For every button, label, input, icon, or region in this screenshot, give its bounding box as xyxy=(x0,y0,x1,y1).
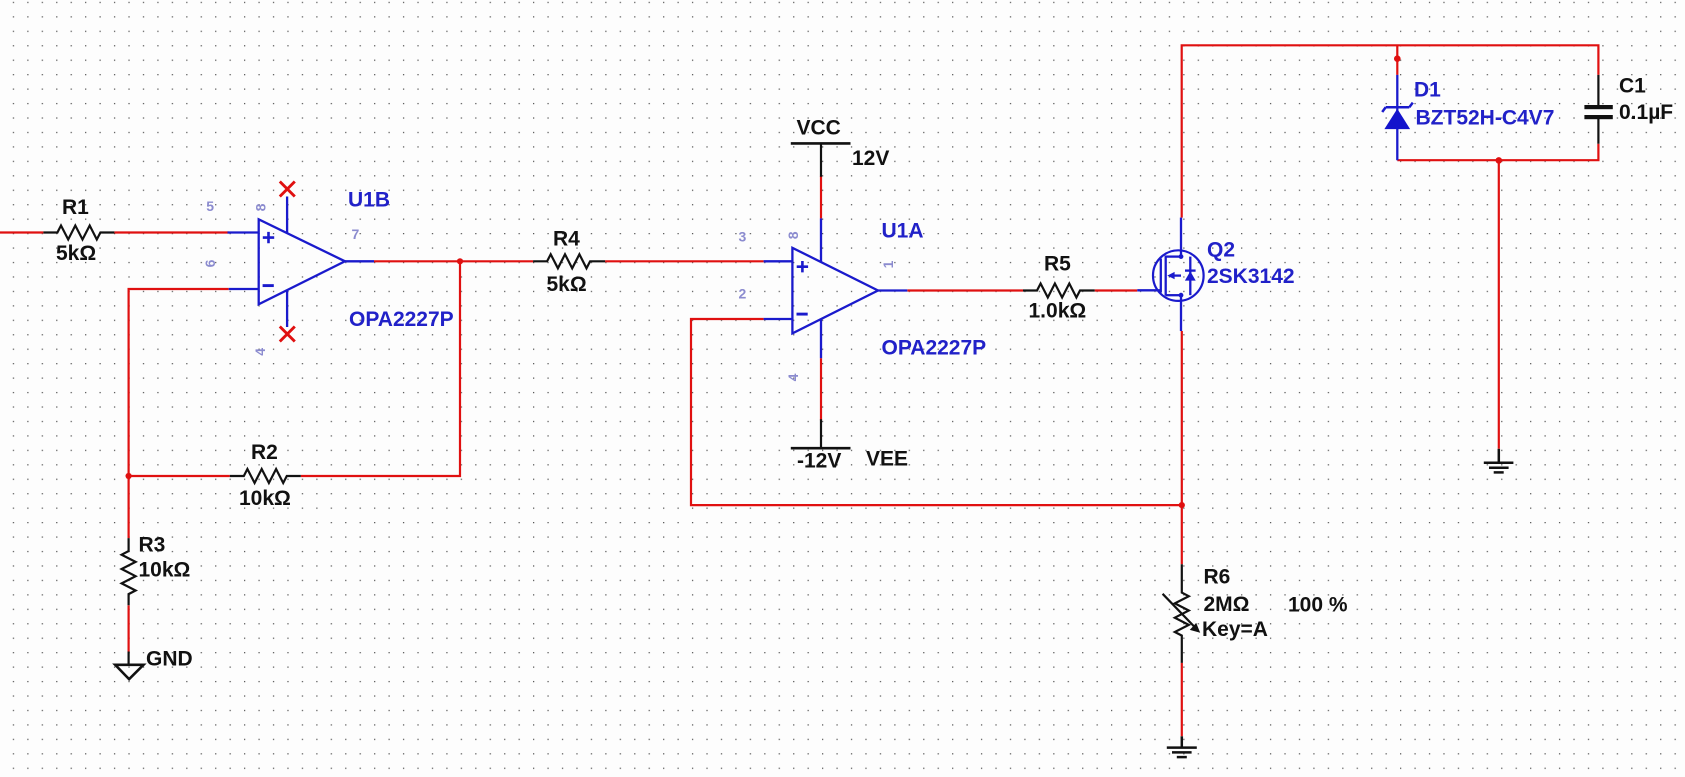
svg-text:R5: R5 xyxy=(1044,253,1071,276)
svg-text:-12V: -12V xyxy=(797,450,841,473)
svg-text:6: 6 xyxy=(202,259,218,267)
svg-text:R3: R3 xyxy=(139,534,166,557)
svg-text:C1: C1 xyxy=(1619,75,1646,98)
svg-text:OPA2227P: OPA2227P xyxy=(349,308,454,331)
svg-text:GND: GND xyxy=(146,648,193,671)
svg-text:4: 4 xyxy=(252,348,268,356)
svg-text:1: 1 xyxy=(880,260,896,268)
svg-text:100 %: 100 % xyxy=(1288,594,1348,617)
svg-text:5kΩ: 5kΩ xyxy=(547,273,587,296)
svg-text:Key=A: Key=A xyxy=(1202,618,1268,641)
svg-text:VCC: VCC xyxy=(797,117,841,140)
svg-text:Q2: Q2 xyxy=(1207,239,1235,262)
svg-text:VEE: VEE xyxy=(866,448,908,471)
svg-text:8: 8 xyxy=(785,231,801,239)
svg-text:1.0kΩ: 1.0kΩ xyxy=(1029,300,1087,323)
svg-text:2: 2 xyxy=(739,286,747,302)
svg-text:R4: R4 xyxy=(553,228,580,251)
svg-text:R1: R1 xyxy=(62,196,89,219)
svg-text:U1A: U1A xyxy=(882,220,924,243)
svg-text:D1: D1 xyxy=(1414,79,1441,102)
svg-text:7: 7 xyxy=(352,226,360,242)
svg-text:8: 8 xyxy=(253,203,269,211)
svg-text:5: 5 xyxy=(206,198,214,214)
svg-text:10kΩ: 10kΩ xyxy=(239,487,291,510)
svg-text:5kΩ: 5kΩ xyxy=(56,242,96,265)
svg-text:R2: R2 xyxy=(251,441,278,464)
svg-text:0.1µF: 0.1µF xyxy=(1619,101,1673,124)
svg-text:12V: 12V xyxy=(852,147,889,170)
svg-text:4: 4 xyxy=(785,373,801,381)
svg-text:U1B: U1B xyxy=(348,189,390,212)
svg-text:BZT52H-C4V7: BZT52H-C4V7 xyxy=(1416,107,1555,130)
svg-text:3: 3 xyxy=(739,229,747,245)
svg-text:2SK3142: 2SK3142 xyxy=(1207,265,1295,288)
svg-text:2MΩ: 2MΩ xyxy=(1204,593,1250,616)
svg-text:OPA2227P: OPA2227P xyxy=(882,337,987,360)
svg-text:10kΩ: 10kΩ xyxy=(139,559,191,582)
svg-text:R6: R6 xyxy=(1204,566,1231,589)
